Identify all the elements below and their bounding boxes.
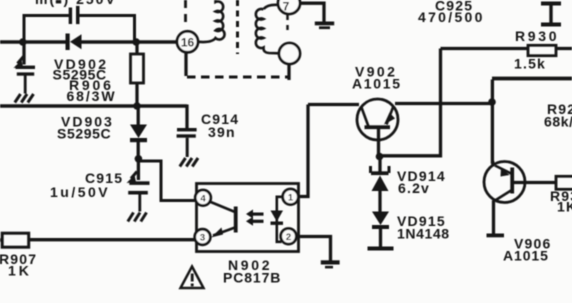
core dashed: [236, 0, 239, 54]
svg-text:3: 3: [200, 233, 205, 244]
capacitor top plates: [69, 6, 80, 24]
svg-text:4: 4: [200, 194, 206, 205]
dashes between pin7 and lower pin: [286, 15, 289, 33]
optocoupler N902 box: [197, 184, 299, 252]
svg-text:68k/5: 68k/5: [544, 114, 572, 130]
wire main top rail y=42: [0, 40, 177, 44]
lead below lower pin: [287, 64, 290, 80]
hatched ground C914: [180, 158, 198, 167]
diode VD915: [372, 212, 389, 230]
electrolytic C915 branch: [137, 159, 140, 180]
transistor V906: [484, 162, 525, 203]
node dot base V902: [376, 153, 384, 161]
arrow mark: [18, 57, 24, 64]
resistor R906 vertical: [135, 42, 138, 54]
svg-text:1: 1: [288, 193, 294, 204]
transformer circle pin 7: [278, 0, 300, 14]
opto pin 4: [195, 190, 211, 206]
svg-text:1u/50V: 1u/50V: [50, 184, 110, 200]
node dot left: [19, 38, 27, 46]
svg-text:39n: 39n: [208, 124, 236, 140]
svg-text:A1015: A1015: [352, 76, 402, 92]
svg-text:A1015: A1015: [503, 248, 549, 264]
svg-text:PC817B: PC817B: [223, 270, 281, 286]
ground under opto: [321, 260, 340, 268]
hatched ground C915: [128, 213, 147, 222]
light arrows: [246, 210, 264, 226]
svg-text:16: 16: [181, 36, 195, 50]
zener VD914: [378, 158, 381, 172]
transformer lower pin circle: [279, 43, 300, 64]
capacitor C925 symbol: [541, 2, 561, 27]
opto pin 1: [283, 189, 299, 205]
left electrolytic cap branch: [22, 42, 25, 65]
wire node->opto pin4: [138, 161, 195, 201]
svg-text:2: 2: [286, 232, 291, 243]
node dot emitter rail: [488, 98, 496, 106]
warning triangle: [181, 267, 204, 289]
wire B horizontal y=106: [0, 104, 187, 108]
resistor R907: [2, 233, 29, 247]
svg-text:68/3W: 68/3W: [67, 88, 117, 104]
capacitor C914 branch: [185, 105, 188, 129]
opto pin 3: [195, 229, 211, 245]
svg-text:m(*) 250V: m(*) 250V: [35, 0, 117, 7]
transistor V902: [357, 99, 398, 140]
ground top right: [300, 3, 324, 21]
wire R930 to base junction: [380, 49, 441, 156]
hatched ground: [15, 94, 34, 103]
plates: [16, 66, 36, 76]
node dot wireB: [133, 102, 141, 110]
svg-text:1N4148: 1N4148: [397, 226, 450, 242]
node dot right: [132, 38, 140, 46]
opto phototransistor: [210, 202, 236, 236]
svg-text:S5295C: S5295C: [57, 126, 111, 142]
wire emitter rail up and right: [491, 80, 494, 164]
wire opto pin2 to ground: [296, 237, 331, 261]
svg-text:7: 7: [283, 0, 290, 14]
resistor right edge (base V906): [556, 176, 572, 189]
svg-text:6.2v: 6.2v: [398, 180, 430, 196]
dashed lead above 16: [184, 0, 187, 28]
transformer circle pin 16: [177, 31, 198, 52]
wire opto pin1 to V902 collector: [299, 105, 308, 197]
resistor R930: [441, 47, 572, 50]
svg-text:1K: 1K: [557, 199, 572, 215]
wire top capacitor branch: [24, 16, 135, 43]
diode VD903: [137, 106, 140, 125]
dashed shield bottom: [187, 76, 290, 79]
svg-text:1.5k: 1.5k: [514, 56, 546, 72]
svg-text:470/500: 470/500: [418, 9, 485, 25]
svg-text:R930: R930: [515, 28, 559, 44]
opto pin 2: [281, 229, 297, 245]
right winding: [256, 5, 279, 53]
opto LED: [277, 197, 283, 242]
solid lead below 16: [184, 53, 187, 77]
svg-text:1K: 1K: [8, 263, 32, 279]
left winding: [198, 0, 225, 42]
node dot under VD903: [135, 155, 143, 163]
diode VD902: [66, 34, 82, 51]
